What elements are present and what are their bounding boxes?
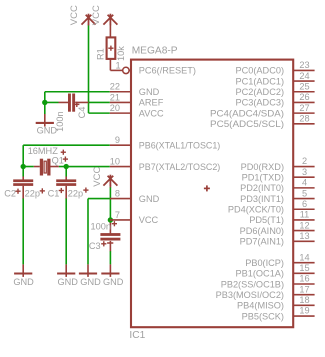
svg-text:PC1(ADC1): PC1(ADC1) — [236, 76, 285, 86]
svg-text:MEGA8-P: MEGA8-P — [132, 46, 178, 57]
svg-text:15: 15 — [299, 263, 309, 273]
svg-text:PB3(MOSI/OC2): PB3(MOSI/OC2) — [216, 290, 284, 300]
svg-text:GND: GND — [13, 277, 34, 287]
svg-text:PD4(XCK/T0): PD4(XCK/T0) — [228, 205, 284, 215]
svg-text:100n: 100n — [91, 221, 111, 231]
svg-text:22: 22 — [110, 82, 120, 92]
svg-text:4: 4 — [302, 178, 307, 188]
svg-text:GND: GND — [80, 277, 101, 287]
svg-text:VCC: VCC — [91, 5, 102, 25]
svg-text:26: 26 — [299, 92, 309, 102]
svg-text:R1: R1 — [95, 48, 105, 60]
svg-text:PB0(ICP): PB0(ICP) — [245, 258, 284, 268]
svg-text:2: 2 — [302, 156, 307, 166]
svg-text:Q1: Q1 — [52, 155, 64, 165]
svg-text:VCC: VCC — [69, 5, 80, 25]
svg-text:C4: C4 — [77, 107, 87, 119]
svg-text:PD0(RXD): PD0(RXD) — [241, 162, 284, 172]
svg-text:PD5(T1): PD5(T1) — [249, 215, 284, 225]
svg-text:PD6(AIN0): PD6(AIN0) — [240, 226, 284, 236]
svg-text:22p: 22p — [25, 188, 40, 198]
svg-text:22p: 22p — [68, 188, 83, 198]
svg-text:PD2(INT0): PD2(INT0) — [240, 183, 284, 193]
svg-text:VCC: VCC — [139, 215, 159, 225]
svg-text:21: 21 — [110, 92, 120, 102]
svg-text:19: 19 — [299, 306, 309, 316]
svg-text:11: 11 — [300, 210, 310, 220]
svg-text:28: 28 — [299, 114, 309, 124]
svg-text:IC1: IC1 — [129, 330, 145, 341]
svg-text:PB2(SS/OC1B): PB2(SS/OC1B) — [221, 279, 284, 289]
svg-text:C3: C3 — [89, 241, 101, 251]
svg-text:VCC: VCC — [92, 167, 103, 187]
svg-text:PB1(OC1A): PB1(OC1A) — [235, 269, 284, 279]
svg-text:PD3(INT1): PD3(INT1) — [240, 194, 284, 204]
svg-text:GND: GND — [58, 277, 79, 287]
svg-text:GND: GND — [139, 194, 160, 204]
svg-text:5: 5 — [302, 188, 307, 198]
svg-text:17: 17 — [299, 284, 309, 294]
svg-text:C2: C2 — [4, 188, 16, 198]
svg-text:GND: GND — [103, 277, 124, 287]
svg-text:20: 20 — [110, 103, 120, 113]
svg-text:13: 13 — [299, 231, 309, 241]
svg-text:16: 16 — [299, 274, 309, 284]
svg-text:8: 8 — [115, 188, 120, 198]
svg-text:PC3(ADC3): PC3(ADC3) — [236, 98, 285, 108]
svg-text:3: 3 — [302, 167, 307, 177]
svg-text:23: 23 — [299, 60, 309, 70]
svg-text:PB4(MISO): PB4(MISO) — [237, 301, 284, 311]
svg-text:PD1(TXD): PD1(TXD) — [242, 173, 284, 183]
svg-text:9: 9 — [115, 135, 120, 145]
svg-text:PB7(XTAL2/TOSC2): PB7(XTAL2/TOSC2) — [139, 162, 221, 172]
svg-text:7: 7 — [115, 210, 120, 220]
svg-text:AREF: AREF — [139, 98, 164, 108]
svg-text:12: 12 — [299, 220, 309, 230]
svg-text:PC0(ADC0): PC0(ADC0) — [236, 66, 285, 76]
svg-text:1: 1 — [115, 60, 120, 70]
svg-text:PC4(ADC4/SDA): PC4(ADC4/SDA) — [210, 108, 284, 118]
svg-text:PB5(SCK): PB5(SCK) — [242, 311, 284, 321]
svg-text:10k: 10k — [116, 46, 126, 61]
svg-text:10: 10 — [110, 156, 120, 166]
svg-text:GND: GND — [37, 126, 58, 136]
svg-text:24: 24 — [299, 71, 309, 81]
svg-text:PC5(ADC5/SCL): PC5(ADC5/SCL) — [210, 119, 284, 129]
svg-text:PB6(XTAL1/TOSC1): PB6(XTAL1/TOSC1) — [139, 140, 221, 150]
svg-text:6: 6 — [302, 199, 307, 209]
svg-text:18: 18 — [299, 295, 309, 305]
svg-text:25: 25 — [299, 81, 309, 91]
svg-text:27: 27 — [299, 103, 309, 113]
svg-text:AVCC: AVCC — [139, 108, 164, 118]
svg-text:GND: GND — [139, 87, 160, 97]
svg-text:PD7(AIN1): PD7(AIN1) — [240, 237, 284, 247]
svg-text:PC6(/RESET): PC6(/RESET) — [139, 66, 196, 76]
svg-text:14: 14 — [299, 252, 309, 262]
svg-text:C1: C1 — [48, 188, 60, 198]
svg-text:PC2(ADC2): PC2(ADC2) — [236, 87, 285, 97]
